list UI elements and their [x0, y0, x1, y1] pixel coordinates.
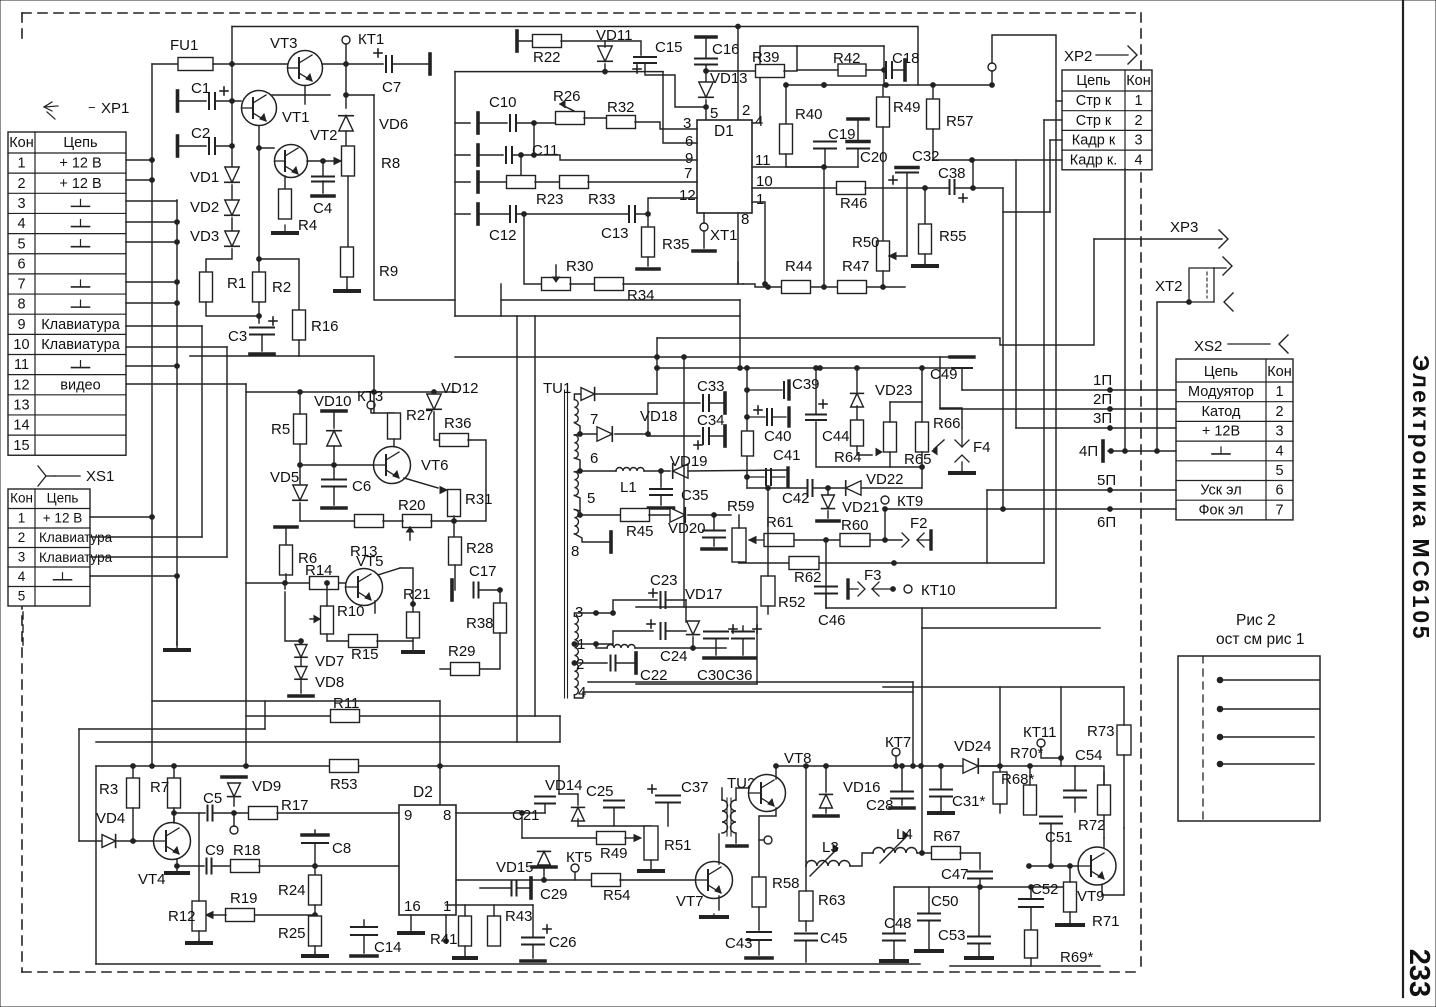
- svg-text:+ 12В: + 12В: [1202, 424, 1240, 440]
- wire R3 top stub: [132, 766, 134, 778]
- svg-text:R57: R57: [946, 113, 974, 130]
- wire VD16 top: [825, 766, 827, 792]
- wire pin10 line: [752, 187, 837, 189]
- svg-text:R49: R49: [893, 99, 921, 116]
- resistor R42: [838, 64, 866, 76]
- resistor R23: [507, 176, 536, 189]
- svg-text:R50: R50: [852, 234, 880, 251]
- svg-text:Электроника МС6105: Электроника МС6105: [1408, 355, 1434, 641]
- junction dots VT1 emitter: [257, 146, 262, 151]
- junction dot VD21: [826, 486, 831, 491]
- diode VD4: [102, 835, 116, 848]
- junction dot C38 node: [970, 158, 975, 163]
- wire pin2 lead: [574, 662, 607, 664]
- wire VT6 emitter: [404, 478, 438, 488]
- resistor R6: [280, 545, 293, 575]
- wire rail y316: [455, 315, 740, 317]
- svg-text:C10: C10: [489, 94, 517, 111]
- svg-text:R42: R42: [833, 50, 861, 67]
- svg-text:4: 4: [17, 216, 25, 232]
- wire R39 right: [784, 46, 797, 71]
- wire pin8 lead: [574, 534, 609, 542]
- svg-text:C3: C3: [228, 328, 247, 345]
- wire R50 arrow: [889, 255, 907, 257]
- svg-text:R15: R15: [351, 646, 379, 663]
- svg-text:R51: R51: [664, 837, 692, 854]
- svg-text:R49: R49: [600, 845, 628, 862]
- wire XP1 row1 stub: [126, 159, 152, 161]
- junction dot VD12: [432, 390, 437, 395]
- junction dot VT9 base: [1027, 864, 1032, 869]
- ground C50: [916, 949, 942, 951]
- dashed schematic border top: [22, 12, 1141, 14]
- wire R63 top: [805, 866, 807, 891]
- inset pin line 2: [1220, 708, 1319, 710]
- capacitor C50: [918, 914, 940, 921]
- junction dot C13 R35: [646, 212, 651, 217]
- junction dot rect: [691, 646, 696, 651]
- wire pin5 lead b: [574, 510, 580, 512]
- resistor R21: [407, 612, 420, 638]
- svg-text:C4: C4: [313, 200, 332, 217]
- junction dot C42 line: [766, 486, 771, 491]
- wire R41 top: [464, 905, 466, 916]
- wire R1 bottom: [206, 302, 259, 316]
- svg-text:9: 9: [17, 317, 25, 333]
- wire bus drop C1: [231, 64, 233, 146]
- wire R20 right: [431, 520, 454, 522]
- svg-text:C28: C28: [866, 797, 894, 814]
- diode VD22: [846, 481, 861, 495]
- svg-text:R9: R9: [379, 263, 398, 280]
- svg-text:R18: R18: [233, 842, 261, 859]
- wire bus VD chain: [231, 146, 233, 166]
- wire C6 stem: [333, 465, 335, 479]
- inductor TU1 winding sec: [574, 616, 578, 695]
- transistor VT3: [288, 51, 323, 86]
- capacitor C49: [950, 357, 974, 368]
- wire R11 line: [246, 715, 330, 717]
- svg-text:C37: C37: [681, 779, 709, 796]
- wire vert 922: [921, 628, 923, 766]
- wire bottom tr rail: [768, 286, 905, 288]
- svg-text:R52: R52: [778, 594, 806, 611]
- wire XT1 stem: [703, 213, 705, 223]
- wire VT2 collector: [307, 160, 341, 162]
- wire XS1 row4 stub: [90, 575, 177, 577]
- wire C29 lead: [480, 887, 511, 889]
- wire KT4 stem: [233, 813, 235, 826]
- wire rect top rail: [636, 606, 757, 608]
- wire bc rail 682: [588, 681, 913, 683]
- wire C36 gnd: [742, 639, 744, 655]
- capacitor C32: [896, 168, 918, 173]
- wire bl vert 79: [78, 729, 80, 841]
- capacitor C39: [747, 389, 782, 391]
- wire C20 top stem: [857, 119, 859, 141]
- terminal KT5: [571, 864, 579, 872]
- svg-text:Катод: Катод: [1202, 404, 1241, 420]
- wire VD24 right: [981, 765, 1000, 767]
- wire R9 gnd: [346, 277, 348, 288]
- wire R40 stem: [785, 85, 787, 125]
- junction dot R24: [313, 913, 318, 918]
- wire C38 up: [972, 160, 974, 188]
- svg-text:R60: R60: [841, 517, 869, 534]
- capacitor C5: [208, 806, 213, 821]
- svg-text:R26: R26: [553, 88, 581, 105]
- wire XP3 feed: [657, 239, 1094, 345]
- wire R28 bottom: [454, 565, 456, 590]
- capacitor C35: [650, 489, 672, 495]
- capacitor C42: [808, 480, 813, 496]
- svg-text:XT2: XT2: [1155, 278, 1183, 295]
- svg-text:R55: R55: [939, 228, 967, 245]
- wire R49b right: [625, 837, 634, 839]
- wire C17 right: [479, 589, 500, 591]
- wire C46 riser: [825, 540, 827, 608]
- wire R24 to R25: [314, 915, 316, 922]
- inductor TU1 winding 2: [574, 435, 578, 458]
- svg-text:R14: R14: [305, 562, 333, 579]
- terminal KT2: [988, 63, 996, 71]
- wire KT6 stub: [759, 839, 764, 841]
- svg-text:C15: C15: [655, 39, 683, 56]
- svg-text:6П: 6П: [1097, 514, 1116, 531]
- wire rail y357: [455, 356, 950, 358]
- svg-text:VD18: VD18: [640, 408, 678, 425]
- junction dots ml rail: [298, 390, 303, 395]
- wire capR59 stem: [713, 515, 715, 530]
- wire base rail VT5: [246, 582, 309, 584]
- junction dot VT4 emit: [175, 864, 180, 869]
- diode VD19: [673, 464, 688, 478]
- svg-text:C51: C51: [1045, 829, 1073, 846]
- svg-text:R69*: R69*: [1060, 949, 1094, 966]
- svg-text:4: 4: [755, 113, 763, 130]
- connector table XP2: [1062, 70, 1152, 170]
- wire +12V left bus: [151, 64, 153, 766]
- wire C34 link: [648, 435, 700, 437]
- svg-text:Цепь: Цепь: [63, 135, 97, 151]
- wire R6 bottom: [285, 574, 287, 583]
- svg-text:1П: 1П: [1093, 372, 1112, 389]
- wire KT1 stem: [345, 44, 347, 64]
- svg-text:VD5: VD5: [270, 469, 299, 486]
- wire VT4 node rail: [96, 765, 174, 767]
- svg-text:C44: C44: [822, 428, 850, 445]
- wire R49a stem: [882, 85, 884, 97]
- svg-text:R47: R47: [842, 258, 870, 275]
- svg-text:4: 4: [1275, 443, 1283, 459]
- wire VD23 down: [856, 406, 858, 420]
- svg-text:R19: R19: [230, 890, 258, 907]
- wire VT9 emitter: [1101, 885, 1103, 895]
- wire VT9 emitter down: [1102, 894, 1124, 896]
- wire VD21 gnd: [827, 511, 829, 518]
- wire XP2 row3: [1050, 139, 1062, 141]
- capacitor C23: [661, 592, 666, 608]
- resistor R4: [279, 189, 292, 219]
- wire VD17 stem: [685, 600, 687, 622]
- terminal KT11: [1037, 739, 1045, 747]
- wire R19 left: [213, 914, 226, 916]
- wire XP2 row3 vert: [1049, 140, 1051, 212]
- svg-text:7: 7: [590, 411, 598, 428]
- wire R20 mid: [383, 520, 403, 522]
- resistor R36: [440, 434, 469, 447]
- svg-text:5: 5: [17, 236, 25, 252]
- svg-text:1: 1: [1134, 93, 1142, 109]
- capacitor C41: [747, 476, 764, 478]
- resistor R50: [877, 241, 890, 271]
- svg-text:R5: R5: [271, 421, 290, 438]
- svg-text:233: 233: [1403, 949, 1435, 997]
- svg-text:R11: R11: [333, 695, 359, 712]
- wire bc vert 913: [912, 682, 914, 766]
- diode VD12: [427, 394, 441, 409]
- svg-text:C33: C33: [697, 378, 725, 395]
- svg-text:5: 5: [587, 490, 595, 507]
- capacitor C53: [968, 937, 990, 944]
- wire R31 bottom: [453, 516, 455, 537]
- wire C42 line right: [813, 487, 922, 489]
- wire R45 right: [649, 514, 670, 516]
- svg-text:9: 9: [404, 807, 412, 824]
- junction dot pin1: [444, 939, 449, 944]
- capacitor C21: [535, 797, 555, 804]
- wire KT5 stem: [574, 872, 576, 880]
- inductor TU2-L: [722, 800, 728, 833]
- svg-text:VT3: VT3: [270, 35, 298, 52]
- wire pin4 lead: [574, 692, 913, 698]
- ground F4: [950, 471, 974, 473]
- inductor TU2-R: [731, 800, 736, 833]
- resistor R28: [449, 537, 462, 565]
- wire C5 right: [213, 812, 234, 814]
- wire pin2 drop: [737, 27, 739, 121]
- wire VD11 drop to pin6: [663, 72, 697, 143]
- transistor VT4: [154, 823, 191, 860]
- wire C14 top: [363, 920, 365, 927]
- chassis bar R35: [637, 267, 659, 271]
- chassis bar C28: [890, 806, 914, 810]
- svg-text:12: 12: [13, 377, 29, 393]
- wire VT4 c5 line: [174, 812, 205, 814]
- transistor VT9: [1078, 847, 1116, 885]
- wire C12 to C13: [516, 213, 629, 215]
- wire C24 right: [666, 630, 686, 632]
- wire C34 bar: [709, 435, 723, 437]
- svg-text:C5: C5: [203, 790, 222, 807]
- terminal KT7: [892, 748, 900, 756]
- svg-text:КТ5: КТ5: [566, 849, 592, 866]
- svg-text:VD13: VD13: [710, 70, 748, 87]
- resistor R17: [249, 807, 278, 820]
- fuse FU1: [178, 58, 213, 71]
- wire R11 drop: [559, 716, 561, 742]
- svg-text:3: 3: [17, 196, 25, 212]
- ground C31: [929, 811, 953, 813]
- resistor R35: [642, 227, 655, 257]
- wire R68 to C51: [999, 804, 1001, 813]
- svg-text:Стр к: Стр к: [1076, 93, 1112, 109]
- anode bar VD15: [532, 865, 556, 869]
- wire XP1 row4 stub: [126, 221, 177, 223]
- wire XP1 row5 stub: [126, 241, 177, 243]
- inset pin line 1: [1220, 679, 1319, 681]
- chassis bar VD21: [817, 519, 839, 523]
- svg-text:1: 1: [17, 156, 25, 172]
- junction dot R10 top: [325, 581, 330, 586]
- svg-text:КТ9: КТ9: [897, 493, 923, 510]
- wire R10 bottom: [326, 634, 328, 641]
- wire pin7 lead b: [574, 434, 580, 435]
- connector table XP1: [8, 132, 126, 455]
- transistor VT2: [275, 145, 308, 178]
- wire stub C11: [455, 154, 470, 156]
- svg-text:VD9: VD9: [252, 778, 281, 795]
- capacitor C29: [512, 881, 517, 896]
- resistor R29: [451, 663, 480, 676]
- wire bottom right rail: [950, 965, 1100, 967]
- svg-text:VD10: VD10: [314, 393, 352, 410]
- capacitor C47: [968, 872, 992, 879]
- wire rect rail: [596, 644, 607, 648]
- svg-text:VD23: VD23: [875, 382, 913, 399]
- wire VT5 emitter: [374, 601, 376, 613]
- wire XT1 gnd: [703, 231, 705, 248]
- junction dots tr bus: [784, 83, 789, 88]
- wire R72 top: [1103, 772, 1105, 785]
- wire XP1 row11 stub: [126, 365, 177, 367]
- svg-text:C49: C49: [930, 366, 958, 383]
- diode VD7: [295, 645, 307, 658]
- wire R6 top: [285, 529, 287, 546]
- wire R60 right: [870, 539, 902, 541]
- junction dot KT11: [1059, 756, 1064, 761]
- resistor R8: [342, 146, 355, 176]
- inset pin line 4: [1220, 763, 1314, 765]
- wire C10 lead: [478, 122, 507, 124]
- wire R26 to R32: [584, 117, 607, 119]
- ground R51: [639, 869, 663, 871]
- svg-text:L3: L3: [822, 839, 839, 856]
- junction dot R70: [1028, 764, 1033, 769]
- wire C8 top: [314, 830, 316, 835]
- wire VD6 to R8: [345, 131, 347, 147]
- capacitor C16: [695, 59, 717, 65]
- svg-text:R7: R7: [150, 779, 169, 796]
- junction dot VT2 coll: [321, 159, 326, 164]
- wire R5 bottom: [299, 444, 301, 486]
- wire XP2 col drop: [1124, 169, 1126, 451]
- svg-text:XS2: XS2: [1194, 338, 1222, 355]
- resistor R16: [293, 310, 306, 340]
- wire VT4 gnd stem: [176, 866, 178, 870]
- junction dot pin6: [578, 469, 583, 474]
- junction dots rails: [655, 355, 660, 360]
- junction dot F3: [891, 587, 896, 592]
- junction dot pin3: [594, 611, 599, 616]
- wire R20 line: [300, 520, 355, 522]
- junction dots XS1: [150, 515, 155, 520]
- junction dot VD6 top: [344, 93, 349, 98]
- resistor R61: [764, 534, 794, 547]
- wire KT9 vert: [884, 509, 886, 540]
- svg-text:3: 3: [18, 550, 26, 565]
- wire L4 left: [850, 853, 873, 866]
- wire VD11 bottom: [604, 64, 606, 72]
- resistor R51: [644, 826, 658, 860]
- junction dot pin5 node: [704, 105, 709, 110]
- wire x374 vertical: [374, 95, 455, 300]
- wire C29 bar: [517, 887, 529, 889]
- wire R7 bottom: [173, 808, 175, 823]
- junction dot FU1 node: [230, 62, 235, 67]
- junction dot C6 node: [332, 463, 337, 468]
- svg-text:C26: C26: [549, 934, 577, 951]
- svg-text:R58: R58: [772, 875, 800, 892]
- svg-text:D1: D1: [714, 123, 734, 140]
- svg-text:C35: C35: [681, 487, 709, 504]
- svg-text:3: 3: [1275, 424, 1283, 440]
- wire rect riser: [683, 357, 685, 607]
- capacitor C33: [703, 395, 709, 411]
- wire XP2 row2: [1044, 119, 1062, 121]
- svg-text:VT5: VT5: [356, 553, 384, 570]
- wire VD top right: [596, 393, 657, 395]
- wire 4P line: [1108, 450, 1176, 452]
- svg-text:VD22: VD22: [866, 471, 904, 488]
- wire VD13 to R39: [706, 70, 756, 72]
- svg-text:C29: C29: [540, 886, 568, 903]
- transistor VT1: [242, 91, 277, 126]
- wire C18 bar lead: [892, 69, 903, 71]
- wire C30 gnd: [715, 639, 717, 655]
- svg-text:R32: R32: [607, 99, 635, 116]
- svg-text:C42: C42: [782, 490, 810, 507]
- wire XP1 row2 stub: [126, 179, 152, 181]
- svg-text:R66: R66: [933, 415, 961, 432]
- wire C1 lead: [178, 100, 207, 102]
- chassis bar capR59: [702, 547, 726, 551]
- wire vert 535: [534, 316, 536, 716]
- resistor R68: [993, 772, 1007, 804]
- wire C2 lead: [178, 145, 207, 147]
- svg-text:C8: C8: [332, 840, 351, 857]
- svg-text:R72: R72: [1078, 817, 1106, 834]
- svg-text:R2: R2: [272, 279, 291, 296]
- wire pin1 lead: [574, 643, 613, 645]
- wire R3 bottom: [132, 808, 134, 841]
- wire R30 line: [524, 214, 541, 284]
- junction dot pin11: [822, 165, 827, 170]
- wire 5P riser: [986, 490, 988, 563]
- page margin rule: [1402, 0, 1404, 997]
- wire pin7 lead: [574, 423, 597, 434]
- chassis bar C35: [649, 506, 674, 510]
- wire R16 rail to VD10: [299, 356, 374, 392]
- wire pin3 lead: [574, 613, 613, 616]
- wire XT2 drop: [1157, 302, 1189, 451]
- wire C52 bottom: [1030, 907, 1032, 931]
- wire TU2 L top: [721, 788, 723, 800]
- svg-text:VD2: VD2: [190, 199, 219, 216]
- capacitor C28: [891, 792, 913, 799]
- svg-text:R4: R4: [298, 217, 317, 234]
- svg-text:VD12: VD12: [441, 380, 479, 397]
